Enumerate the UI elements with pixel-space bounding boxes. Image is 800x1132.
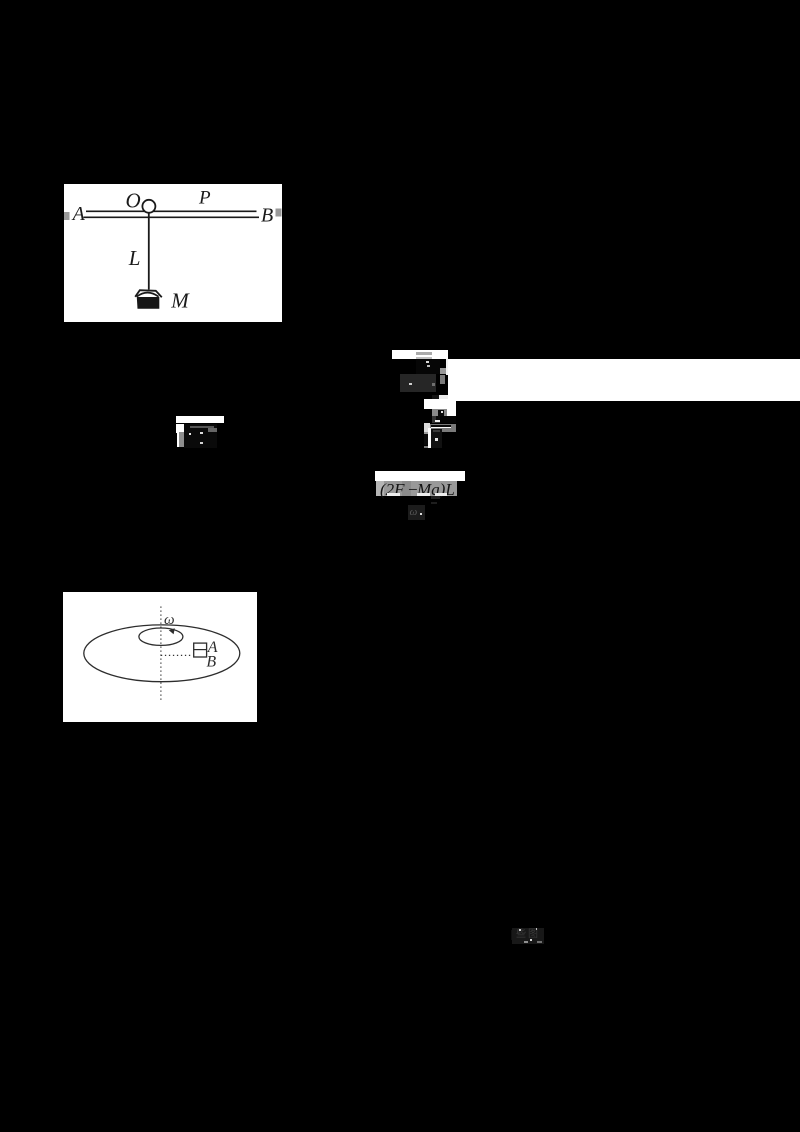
svg-text:A: A [71,203,86,225]
svg-text:O: O [126,188,141,212]
svg-text:ω: ω [164,612,175,628]
svg-text:L: L [128,246,141,270]
svg-text:M: M [170,289,190,313]
svg-text:B: B [261,205,273,227]
svg-text:B: B [206,653,216,670]
svg-text:P: P [198,188,211,209]
